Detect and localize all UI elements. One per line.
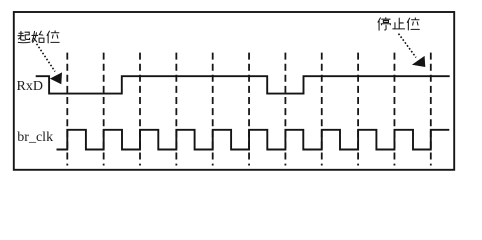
- dashed bit-boundary line 8: [321, 53, 323, 166]
- stop-bit label: character 位: [407, 18, 419, 30]
- br_clk waveform: [57, 130, 450, 150]
- svg-text:br_clk: br_clk: [17, 130, 53, 145]
- dashed bit-boundary line 9: [357, 53, 359, 166]
- dashed bit-boundary line 1: [66, 53, 68, 166]
- dashed bit-boundary line 5: [212, 53, 214, 166]
- dashed bit-boundary line 2: [103, 53, 105, 166]
- start-bit label: character 始: [32, 31, 44, 42]
- dashed bit-boundary line 4: [175, 53, 177, 166]
- stop-bit label: character 止: [393, 18, 405, 29]
- RxD waveform: [36, 76, 450, 93]
- signal label RxD: [17, 79, 43, 94]
- dashed bit-boundary line 7: [284, 53, 286, 166]
- frame border: [14, 12, 454, 170]
- leader arrow for stop bit (dotted line): [399, 34, 426, 67]
- stop-bit label: character 停: [378, 18, 391, 31]
- dashed bit-boundary line 3: [139, 53, 141, 166]
- dashed bit-boundary line 6: [248, 53, 250, 166]
- svg-text:RxD: RxD: [17, 79, 43, 94]
- dashed bit-boundary line 11: [430, 53, 432, 166]
- dashed bit-boundary line 10: [393, 53, 395, 166]
- leader arrow for start bit (dotted line): [37, 44, 62, 85]
- signal label br_clk: [17, 130, 53, 145]
- start-bit label: character 起: [18, 31, 30, 42]
- start-bit label: character 位: [47, 31, 59, 43]
